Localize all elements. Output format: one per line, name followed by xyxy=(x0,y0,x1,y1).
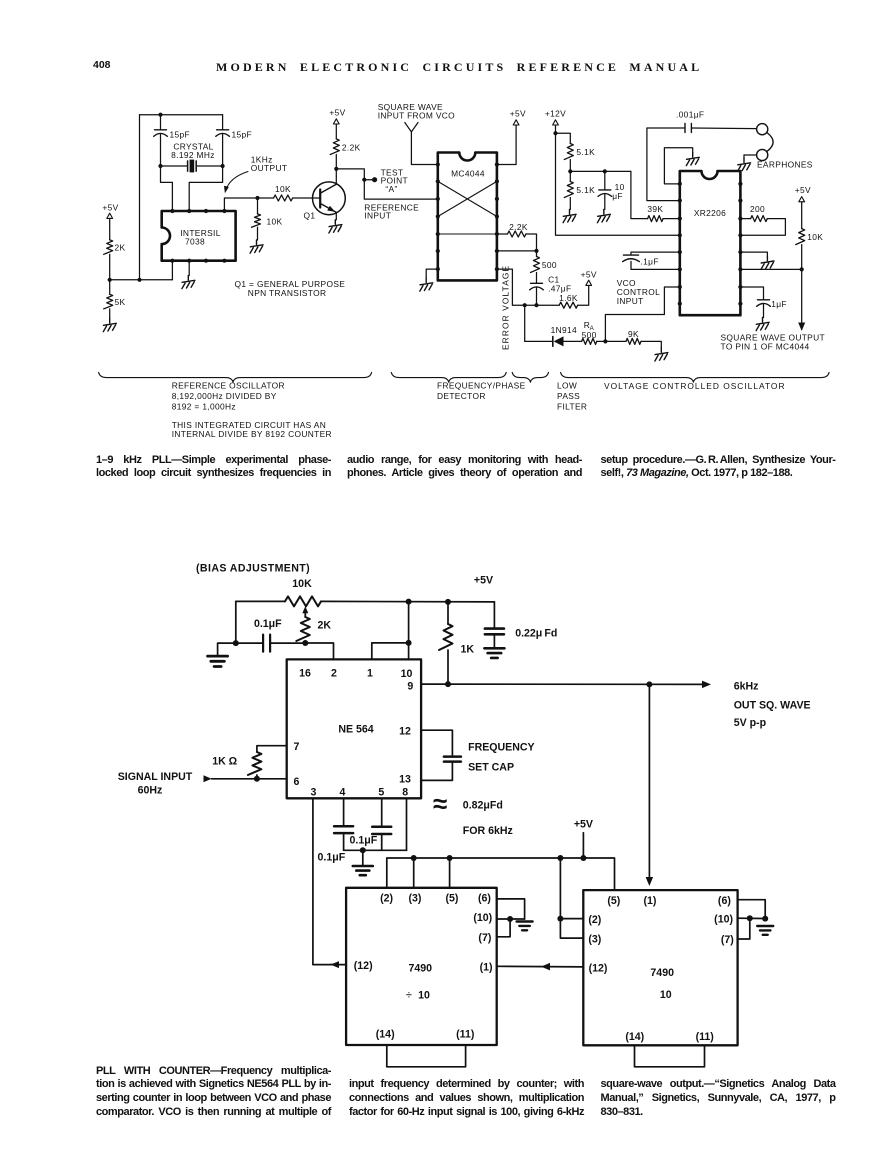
wire pin 5 to cap xyxy=(381,798,383,825)
wire set cap to pin 13 xyxy=(421,762,452,781)
junction rail pin3 riser xyxy=(411,855,417,861)
junction feedback node xyxy=(646,681,652,687)
svg-text:(11): (11) xyxy=(456,1029,474,1041)
junction 1K to pin9 wire xyxy=(445,681,451,687)
svg-text:(BIAS ADJUSTMENT): (BIAS ADJUSTMENT) xyxy=(196,563,310,575)
junction pin1 branch xyxy=(406,640,412,646)
wire pin10 riser xyxy=(408,602,410,660)
pin dots 7038 top xyxy=(170,209,174,213)
svg-text:1: 1 xyxy=(367,668,373,680)
svg-text:9: 9 xyxy=(407,680,413,692)
pin dots MC4044 right xyxy=(495,162,499,166)
svg-text:0.22μ Fd: 0.22μ Fd xyxy=(515,628,557,640)
svg-text:2.2K: 2.2K xyxy=(342,143,361,153)
wire 2.2K to collector node xyxy=(335,155,337,169)
wire top crystal rail xyxy=(140,114,223,116)
svg-text:2.2K: 2.2K xyxy=(509,222,528,232)
wire XR2206 pin to ground right xyxy=(740,252,767,256)
capacitor 1uF xyxy=(758,299,770,301)
svg-text:3: 3 xyxy=(310,787,316,799)
svg-text:LOW: LOW xyxy=(557,381,577,391)
wire left 15pF bottom lead xyxy=(160,135,162,167)
earphones xyxy=(757,124,768,135)
wire junction to 1.6K xyxy=(537,304,560,306)
svg-text:(14): (14) xyxy=(376,1029,395,1041)
svg-text:2K: 2K xyxy=(115,243,126,253)
wire pin4 cap to bus xyxy=(343,833,345,850)
ground 7490-1 xyxy=(517,922,533,931)
brace frequency/phase detector xyxy=(391,372,506,382)
wire node to 0.1uF xyxy=(236,642,262,644)
resistor 2.2K phase output xyxy=(508,231,526,237)
pot wiper arrow xyxy=(304,612,306,618)
wire pin3 riser 7490 xyxy=(413,858,415,888)
resistor 200 xyxy=(751,216,768,222)
wire RA to 9K junction xyxy=(597,340,606,342)
wire MC4044 to 2.2K xyxy=(497,233,508,235)
wire 500 leads xyxy=(536,251,538,257)
junction error voltage node xyxy=(523,303,527,307)
wire branch to 7490-2 pins 2,3 xyxy=(560,858,583,938)
wire MC4044 error output xyxy=(497,269,525,305)
pin dots XR2206 left xyxy=(678,182,682,186)
ground XR2206 pin1 xyxy=(686,153,699,166)
svg-text:μF: μF xyxy=(612,191,623,201)
svg-text:1μF: 1μF xyxy=(771,299,787,309)
svg-text:(6): (6) xyxy=(478,893,491,905)
junction +12V node xyxy=(553,131,557,135)
crystal Y1 8.192 MHz xyxy=(161,165,188,167)
junction 7490-2 pin2 node xyxy=(557,916,563,922)
wire 7490-1 pin10 stub xyxy=(497,918,525,920)
svg-text:0.1μF: 0.1μF xyxy=(318,852,346,864)
IC U5 7490 divide-by-10 body xyxy=(346,888,497,1045)
arrow callout 1KHz output xyxy=(226,172,248,191)
wire pin 4 to cap xyxy=(343,798,345,825)
svg-text:(7): (7) xyxy=(721,934,734,946)
capacitor .1uF XR2206 xyxy=(624,254,639,256)
svg-text:5.1K: 5.1K xyxy=(576,185,595,195)
wire error node down to diode xyxy=(524,305,526,341)
wire pot left to ground leg xyxy=(236,601,285,643)
svg-text:15pF: 15pF xyxy=(170,129,191,139)
power +5V arrow right xyxy=(799,197,805,202)
junction C1/1.6K node xyxy=(534,303,538,307)
junction collector node xyxy=(334,167,338,171)
svg-text:5V p-p: 5V p-p xyxy=(734,717,767,729)
wire +5V top rail xyxy=(321,600,494,603)
wire right 15pF bottom lead xyxy=(222,135,224,167)
power +5V arrow (left rail) xyxy=(107,213,113,218)
wire XR2206 output xyxy=(740,268,801,270)
wire MC4044 internal row xyxy=(438,233,497,235)
wire 10K to output node xyxy=(801,245,803,270)
junction crystal right node xyxy=(221,164,225,168)
svg-text:(3): (3) xyxy=(588,934,601,946)
resistor 2K xyxy=(104,240,113,255)
capacitor 0.1uF pin4 xyxy=(334,825,353,828)
wire 1Kohm to input wire xyxy=(256,775,258,779)
capacitor 0.1uF pin5 xyxy=(372,825,391,828)
wire 2.2K to junction xyxy=(526,234,537,251)
caption 2 column 3 xyxy=(601,1078,836,1119)
svg-text:+5V: +5V xyxy=(329,108,345,118)
svg-text:7038: 7038 xyxy=(185,237,205,247)
capacitor C 15pF left xyxy=(155,129,167,131)
IC U4 NE564 body xyxy=(287,659,421,798)
wire to decoupling ground xyxy=(362,850,364,865)
ground below Q1 xyxy=(329,220,342,233)
resistor 39K xyxy=(648,216,663,222)
svg-text:+5V: +5V xyxy=(510,109,526,119)
svg-text:ERROR VOLTAGE: ERROR VOLTAGE xyxy=(501,265,511,350)
capacitor C 15pF right xyxy=(217,129,229,131)
svg-text:FOR 6kHz: FOR 6kHz xyxy=(463,825,513,837)
wire 5K to ground xyxy=(109,309,111,319)
svg-text:(7): (7) xyxy=(478,932,491,944)
ground below 9K xyxy=(655,348,668,361)
svg-text:8,192,000Hz DIVIDED BY: 8,192,000Hz DIVIDED BY xyxy=(172,391,277,401)
svg-text:(6): (6) xyxy=(718,895,731,907)
svg-text:7: 7 xyxy=(294,741,300,753)
resistor 500 xyxy=(531,257,540,273)
wire 7038 bottom pin 1 riser xyxy=(171,261,173,280)
brace low pass filter xyxy=(512,372,548,382)
junction wiper node xyxy=(302,640,308,646)
wire XR2206 .1uF loop top xyxy=(631,252,680,255)
wire 1N914 to RA xyxy=(564,340,582,342)
svg-text:7490: 7490 xyxy=(409,963,433,975)
pin dots MC4044 left xyxy=(436,162,440,166)
svg-text:10K: 10K xyxy=(275,184,291,194)
junction ground leg node xyxy=(233,640,239,646)
wire decoupling bus xyxy=(344,849,407,851)
ground decoupling xyxy=(353,866,373,875)
wire 7490-2 bottom feedback xyxy=(635,1045,705,1067)
wire +5V to 10K right xyxy=(801,202,803,229)
wire Q1 emitter to ground xyxy=(335,212,337,219)
wire crystal left to 7038 pin 1 xyxy=(161,166,173,211)
wire 7490-2 pin10 stub xyxy=(738,917,766,919)
wire right 15pF top lead xyxy=(222,115,224,130)
wire 5.1K lower leads xyxy=(569,171,571,181)
svg-text:1K: 1K xyxy=(461,644,475,656)
svg-text:+5V: +5V xyxy=(581,269,597,279)
brace reference oscillator xyxy=(99,372,372,382)
wire +5V to 2.2K xyxy=(335,124,337,139)
svg-text:(11): (11) xyxy=(696,1031,714,1043)
wire 2K bottom lead xyxy=(304,641,306,643)
wire error node to 1N914 xyxy=(525,340,553,342)
svg-text:4: 4 xyxy=(339,787,345,799)
svg-text:(5): (5) xyxy=(607,895,620,907)
junction test point tap xyxy=(362,178,366,182)
IC U6 7490 second body xyxy=(583,890,737,1045)
svg-text:10K: 10K xyxy=(292,578,312,590)
svg-text:+5V: +5V xyxy=(102,203,118,213)
ground 0.22uF xyxy=(484,648,504,658)
wire 1.6K to +5V xyxy=(578,285,589,305)
wire 7490-1 bottom feedback xyxy=(387,1045,466,1067)
wire XR2206 pin1 ground loop xyxy=(664,148,692,184)
svg-text:1K Ω: 1K Ω xyxy=(212,755,237,767)
svg-text:XR2206: XR2206 xyxy=(694,208,726,218)
wire MC4044 internal cross xyxy=(438,181,497,216)
wire pin1 branch xyxy=(372,643,409,660)
svg-text:8192 = 1,000Hz: 8192 = 1,000Hz xyxy=(172,401,236,411)
wire 9K leads xyxy=(605,340,626,342)
svg-text:EARPHONES: EARPHONES xyxy=(757,159,813,169)
wire C1 to error node xyxy=(536,288,538,305)
svg-text:+5V: +5V xyxy=(574,818,593,830)
svg-text:39K: 39K xyxy=(647,204,663,214)
wire +12V branch to 5.1K xyxy=(556,133,571,143)
svg-text:FREQUENCY: FREQUENCY xyxy=(468,742,535,754)
svg-text:NPN TRANSISTOR: NPN TRANSISTOR xyxy=(248,288,327,298)
running head title xyxy=(216,60,698,75)
svg-text:(1): (1) xyxy=(480,961,493,973)
arrow 6kHz output xyxy=(702,681,711,689)
svg-text:“A”: “A” xyxy=(385,184,397,194)
power +12V arrow xyxy=(553,120,559,125)
svg-text:(1): (1) xyxy=(644,895,657,907)
svg-text:+12V: +12V xyxy=(545,109,566,119)
wire 0.22uF to ground xyxy=(493,634,495,647)
resistor 9K xyxy=(626,338,641,344)
svg-text:TO PIN 1 OF MC4044: TO PIN 1 OF MC4044 xyxy=(721,342,810,352)
wire crystal right to 7038 pin 2 xyxy=(189,166,222,211)
svg-text:10: 10 xyxy=(660,989,672,1001)
wire node A to 10K xyxy=(258,197,274,199)
svg-text:(10): (10) xyxy=(714,914,733,926)
wire earphone return xyxy=(744,154,757,156)
wire feedback to 7490 pin 1 xyxy=(648,684,650,878)
caption 2 column 1 xyxy=(96,1065,331,1120)
wire pin5 cap to bus xyxy=(381,834,383,850)
capacitor 0.1uF bias xyxy=(262,635,264,652)
svg-text:INPUT: INPUT xyxy=(617,296,644,306)
ground below MC4044 xyxy=(420,278,433,291)
wire pin5 riser 7490 xyxy=(449,858,451,888)
wire 10K shunt leads xyxy=(257,198,259,214)
wire +5V counters lead xyxy=(582,833,584,858)
junction top rail / left 15pF xyxy=(158,113,162,117)
svg-text:16: 16 xyxy=(299,668,311,680)
svg-text:500: 500 xyxy=(582,330,597,340)
svg-text:(12): (12) xyxy=(589,963,608,975)
wire VCO control input net xyxy=(605,287,679,341)
junction rail pin5 riser xyxy=(447,855,453,861)
wire 200 loop xyxy=(740,218,750,220)
svg-text:5.1K: 5.1K xyxy=(576,147,595,157)
svg-text:PASS: PASS xyxy=(557,391,580,401)
svg-text:.001μF: .001μF xyxy=(676,110,704,120)
wire square wave input to MC4044 xyxy=(411,132,437,165)
ground earphones xyxy=(738,158,751,171)
junction 1K on rail xyxy=(445,599,451,605)
wire .001uF to earphones xyxy=(691,127,756,130)
svg-text:6kHz: 6kHz xyxy=(734,681,759,693)
svg-text:(3): (3) xyxy=(409,893,422,905)
ground below 5K xyxy=(103,319,116,332)
wire wiper node to pin 2 xyxy=(305,643,333,659)
junction 10uF node xyxy=(603,169,607,173)
resistor 2.2K xyxy=(330,139,339,155)
svg-text:8: 8 xyxy=(402,787,408,799)
svg-text:NE 564: NE 564 xyxy=(338,724,373,736)
power +5V arrow at MC4044 xyxy=(513,120,519,125)
wire pin 9 output xyxy=(421,683,704,685)
wire left 15pF top lead xyxy=(160,115,162,130)
wire +5V to MC4044 pin xyxy=(497,125,516,165)
svg-text:SIGNAL INPUT: SIGNAL INPUT xyxy=(118,771,193,783)
resistor 10K right xyxy=(796,229,805,245)
resistor 5.1K lower xyxy=(564,182,573,198)
page number 408 xyxy=(93,59,111,71)
svg-text:≈: ≈ xyxy=(433,789,447,819)
ground XR2206 right xyxy=(761,256,774,269)
wire +5V rail to 2K xyxy=(109,218,111,239)
junction rail +5V xyxy=(580,855,586,861)
wire bottom rail to IC pin (7038 pin 1) xyxy=(110,279,173,281)
ground below 1uF xyxy=(756,318,769,331)
svg-text:1.6K: 1.6K xyxy=(559,293,578,303)
junction input node xyxy=(254,776,260,782)
ground bias network xyxy=(208,656,228,666)
svg-text:10K: 10K xyxy=(267,217,283,227)
junction rail/5K node xyxy=(108,278,112,282)
wire 7038 pin to ground xyxy=(188,261,190,276)
resistor 10K series xyxy=(274,195,293,201)
wire 2K to junction xyxy=(109,254,111,280)
ground 7490-2 xyxy=(757,926,773,935)
svg-text:5K: 5K xyxy=(115,297,126,307)
wire pin 12 stub xyxy=(421,730,452,755)
svg-text:FILTER: FILTER xyxy=(557,401,587,411)
svg-text:1N914: 1N914 xyxy=(551,325,577,335)
svg-text:FREQUENCY/PHASE: FREQUENCY/PHASE xyxy=(437,381,526,391)
junction left vertical / bottom rail xyxy=(137,278,141,282)
resistor 1K xyxy=(439,624,453,650)
svg-text:MC4044: MC4044 xyxy=(451,169,485,179)
svg-text:INPUT: INPUT xyxy=(364,211,391,221)
wire +12V rail to XR2206 xyxy=(556,133,680,235)
wire 5K lead xyxy=(109,280,111,295)
wire 7490-1 pin6 to ground xyxy=(497,899,525,919)
svg-text:10: 10 xyxy=(418,989,430,1001)
resistor 1Kohm input xyxy=(248,752,262,775)
node test point A terminal xyxy=(372,177,377,182)
svg-text:200: 200 xyxy=(750,204,765,214)
svg-text:60Hz: 60Hz xyxy=(138,785,163,797)
svg-text:+5V: +5V xyxy=(474,574,493,586)
wire MC4044 ground pin xyxy=(426,269,438,278)
antenna input terminal xyxy=(405,123,418,132)
wire XR2206 .1uF loop bottom xyxy=(631,261,680,269)
svg-text:2K: 2K xyxy=(318,620,332,632)
svg-text:0.82μFd: 0.82μFd xyxy=(463,800,503,812)
wire 39K to XR2206 xyxy=(663,218,680,220)
capacitor .001uF xyxy=(684,124,686,133)
caption 2 column 2 xyxy=(349,1078,584,1119)
svg-text:6: 6 xyxy=(294,776,300,788)
svg-text:OUTPUT: OUTPUT xyxy=(251,163,288,173)
svg-text:VOLTAGE CONTROLLED OSCILLATO: VOLTAGE CONTROLLED OSCILLATOR xyxy=(604,381,786,391)
input arrow terminal xyxy=(204,775,212,782)
brace voltage controlled oscillator xyxy=(561,372,830,382)
wire 10uF to ground xyxy=(604,195,606,210)
svg-text:SET CAP: SET CAP xyxy=(468,762,514,774)
IC U2 MC4044 body xyxy=(438,153,497,281)
svg-text:13: 13 xyxy=(399,773,411,785)
pin dots 7038 bottom xyxy=(170,259,174,263)
junction 7490-1 pin10/7 node xyxy=(507,916,513,922)
wire pin 3 to 7490 pin 12 xyxy=(313,798,338,964)
wire 0.1uF to wiper junction xyxy=(270,642,305,644)
svg-text:+5V: +5V xyxy=(795,185,811,195)
svg-text:0.1μF: 0.1μF xyxy=(350,835,378,847)
wire 7038 output to node A xyxy=(224,198,257,211)
wire 7490-1 pin1 to 7490-2 pin12 xyxy=(497,965,584,968)
wire Q1 collector xyxy=(335,169,337,184)
capacitor frequency set cap xyxy=(444,755,461,758)
caption 1 column 1 xyxy=(96,454,331,481)
wire 10uF top lead xyxy=(604,171,606,189)
wire MC4044 pin to 500 junction xyxy=(497,250,537,252)
svg-text:(10): (10) xyxy=(473,912,492,924)
ground below 10K shunt xyxy=(250,240,263,253)
svg-text:÷: ÷ xyxy=(406,989,412,1001)
transistor Q1 xyxy=(313,182,346,215)
svg-text:INPUT FROM VCO: INPUT FROM VCO xyxy=(378,110,455,120)
capacitor 0.22uFd xyxy=(485,627,504,630)
wire 10K to Q1 base xyxy=(293,197,321,199)
svg-text:15pF: 15pF xyxy=(232,130,253,140)
wire collector node to reference input xyxy=(336,169,438,199)
resistor 2K bias xyxy=(296,617,310,641)
wire 5.1K upper to junction xyxy=(569,160,571,172)
ground below 7038 xyxy=(182,276,195,289)
wire 1uF to ground xyxy=(763,305,765,318)
capacitor C1 .47uF xyxy=(531,282,543,284)
junction output/10K node xyxy=(255,196,259,200)
junction 2.2K/500 node xyxy=(534,249,538,253)
svg-text:8.192 MHz: 8.192 MHz xyxy=(171,150,215,160)
svg-text:DETECTOR: DETECTOR xyxy=(437,391,486,401)
wire signal input xyxy=(212,778,287,780)
wire rail to 0.22uF xyxy=(493,602,495,628)
svg-text:0.1μF: 0.1μF xyxy=(254,618,282,630)
power +5V arrow at 2.2K xyxy=(333,119,339,124)
wire error node link xyxy=(525,304,537,306)
wire XR2206 pin2 to .001uF xyxy=(647,128,685,201)
wire 7490-2 pin7 stub xyxy=(738,918,750,939)
svg-text:INTERNAL DIVIDE BY 8192 CO: INTERNAL DIVIDE BY 8192 COUNTER xyxy=(172,429,332,439)
svg-text:7490: 7490 xyxy=(650,967,674,979)
junction square wave output node xyxy=(800,267,804,271)
svg-text:(5): (5) xyxy=(446,893,459,905)
resistor 5K xyxy=(104,294,113,309)
resistor RA 500 xyxy=(582,338,597,344)
wire test point stub xyxy=(364,179,372,181)
svg-text:12: 12 xyxy=(399,725,411,737)
power +5V arrow at 1.6K xyxy=(586,280,592,285)
diode D1 1N914 xyxy=(552,337,554,347)
svg-text:2: 2 xyxy=(331,668,337,680)
wire 7490-2 pin6 to ground xyxy=(738,900,766,919)
svg-text:(2): (2) xyxy=(380,893,393,905)
wire XR2206 pin to 1uF xyxy=(740,287,763,299)
